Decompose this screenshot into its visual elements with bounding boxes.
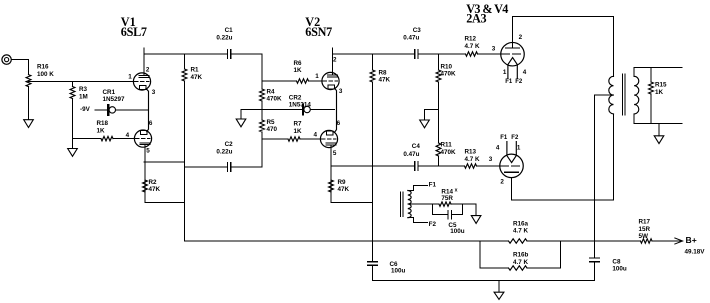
svg-text:R6: R6 [294,60,303,67]
wire V2b plate to C4 [331,165,415,167]
svg-text:49.18V: 49.18V [685,249,706,256]
resistor R14 [439,202,451,206]
svg-text:-9V: -9V [80,106,91,113]
wire rail B top [261,54,263,89]
svg-text:0.47u: 0.47u [403,35,419,42]
svg-text:3: 3 [152,89,156,96]
svg-text:C2: C2 [225,141,234,148]
wire R16 branch left [479,241,481,268]
svg-text:1: 1 [517,145,521,152]
wire R14 to ground stub [451,203,476,205]
wire C6 to bottom rail [372,265,374,280]
wire B+ rail mid [527,240,641,242]
svg-text:F1: F1 [500,135,508,141]
svg-text:6SL7: 6SL7 [121,25,147,39]
svg-text:100u: 100u [450,228,465,235]
wire primary center tap [595,94,614,96]
svg-text:4.7 K: 4.7 K [513,228,529,235]
tube V3 (2A3) [501,42,525,65]
capacitor C2 [227,163,230,171]
svg-text:R9: R9 [338,179,347,186]
wire V2a plate node to C3 [333,53,415,55]
wire node to CR2 [262,109,302,111]
wire R16b left [480,267,509,269]
wire jog down [424,109,426,120]
wire R16b right [527,267,561,269]
svg-text:R15: R15 [655,82,667,89]
wire C5 branch left [432,204,434,215]
wire rail A to B+ rail [184,81,186,241]
svg-text:3: 3 [492,45,496,52]
wire secondary bottom [634,114,682,124]
wire rail B to R6 [262,80,297,82]
wire V1a cathode lead [146,89,149,132]
svg-text:100 K: 100 K [37,71,54,78]
svg-text:5: 5 [333,150,337,157]
wire R7 to V2 lower grid [300,138,320,140]
svg-text:0.47u: 0.47u [403,151,419,158]
wire V2b plate lead [330,145,332,166]
wire center tap to B+ rail [594,95,596,241]
wire V4 plate to transformer [512,114,614,200]
svg-text:6: 6 [149,120,153,127]
wire R3 node to R18 [73,138,102,140]
resistor R2 [143,180,148,192]
wire C5 right [452,214,463,216]
wire rail B mid [261,101,263,120]
wire jack to pot [11,59,28,61]
wire rail D mid [438,82,440,143]
svg-text:4: 4 [496,145,500,152]
svg-text:100u: 100u [612,265,627,272]
svg-text:47K: 47K [338,186,350,193]
svg-text:R16: R16 [37,64,49,71]
wire rail D top [438,54,440,70]
resistor R8 [370,70,375,82]
wire CR1 to V1 cathode [116,109,149,111]
svg-text:75R: 75R [441,195,453,202]
resistor R15 [649,82,654,94]
wire rail D bottom [438,156,440,166]
wire secondary top [634,67,682,76]
wire V3 plate lead [512,17,514,48]
capacitor C8 [590,258,599,262]
resistor R11 [436,143,441,156]
wire pot bottom to ground [28,87,30,120]
svg-text:47K: 47K [149,186,161,193]
svg-text:6SN7: 6SN7 [305,25,332,39]
wire rail B to R7 [262,138,288,140]
capacitor C4 [415,162,418,170]
svg-text:C4: C4 [412,143,421,150]
wire R9 bottom jog [331,202,373,204]
svg-text:R8: R8 [379,69,388,76]
svg-text:1K: 1K [655,89,664,96]
wire to C8 [594,241,596,258]
input jack J1 [2,55,11,64]
wire C8 to bottom rail [594,262,596,281]
triode V2b (6SN7 section 2) [320,130,337,147]
capacitor C6 [368,262,377,266]
svg-text:CR2: CR2 [289,94,302,101]
svg-text:F2: F2 [429,221,437,228]
svg-text:0.22u: 0.22u [216,35,232,42]
wire CR2 to V2 cathode [310,109,334,111]
svg-text:R17: R17 [639,219,651,226]
svg-text:1: 1 [503,69,507,76]
ground [236,119,246,127]
wire B+ rail right [652,240,681,242]
output transformer T2 secondary [634,76,639,114]
potentiometer R16 element [26,75,31,87]
svg-text:F2: F2 [515,79,523,85]
svg-text:100u: 100u [391,267,406,274]
svg-text:2: 2 [500,179,504,186]
resistor R16b [509,266,528,270]
wire C1 to rail [231,53,262,55]
heater transformer T1 core [399,192,401,217]
svg-text:4.7 K: 4.7 K [465,43,481,50]
svg-text:4: 4 [314,132,318,139]
wire F1 lead [408,186,428,191]
tube V4 (2A3) [500,154,524,178]
resistor R13 [465,164,477,168]
wire R12 to V3 grid [478,53,501,55]
svg-text:R4: R4 [267,88,276,95]
svg-text:R12: R12 [465,36,477,43]
wire grid node down [72,82,74,87]
svg-text:R2: R2 [149,179,158,186]
wire hum ground stub [475,204,477,216]
resistor R5 [260,120,265,132]
B+ terminal arrow [675,238,683,244]
wire V1b plate lead down [144,145,146,203]
capacitor C5 [448,211,452,219]
resistor R12 [466,52,478,56]
diode CR2 [302,105,304,115]
wire rail C down [372,82,374,262]
wire center tap to R14 [408,203,439,205]
wire C3 to junction [418,53,438,55]
wire V2a cathode lead [335,88,337,132]
resistor R17 [641,239,653,243]
svg-text:R7: R7 [294,121,303,128]
wire wiper to V1 grid (node G1) [29,81,134,83]
wire V2b plate to R9 [330,166,332,203]
svg-text:470: 470 [267,126,278,133]
svg-text:R16a: R16a [513,220,529,227]
ground [24,120,34,128]
resistor R7 [288,137,300,141]
svg-text:2: 2 [333,56,337,63]
wire rail C top [372,54,374,70]
wire V3 plate to primary top [513,17,614,77]
wire junction to R12 [439,53,466,55]
diode CR1 [107,105,109,115]
resistor R4 [260,89,265,101]
wire C4 to R13 [418,165,464,167]
svg-text:1: 1 [128,73,132,80]
wire C5 branch right [461,204,463,215]
svg-text:R16b: R16b [513,252,529,259]
svg-text:1N5297: 1N5297 [103,96,126,103]
svg-text:C3: C3 [413,27,422,34]
svg-text:5: 5 [146,148,150,155]
svg-text:F1: F1 [505,79,513,85]
svg-text:4.7 K: 4.7 K [465,156,481,163]
resistor R6 [297,79,309,83]
svg-text:R10: R10 [441,63,453,70]
svg-text:0.22u: 0.22u [216,149,232,156]
capacitor C1 [227,50,230,58]
svg-text:2: 2 [146,67,150,74]
heater transformer T1 winding [408,191,411,218]
wire V1a plate node [144,53,185,55]
wire V2a plate lead [332,48,334,75]
svg-text:6: 6 [337,120,341,127]
wire C2 to rail B [231,166,262,168]
svg-text:470K: 470K [441,71,457,78]
svg-text:470K: 470K [441,149,457,156]
svg-text:1N5314: 1N5314 [289,102,312,109]
ground [420,120,430,128]
svg-text:1M: 1M [79,93,88,100]
resistor R10 [436,70,441,82]
wire -9V stub [95,109,107,111]
svg-text:470K: 470K [267,96,283,103]
svg-text:47K: 47K [191,74,203,81]
wire R16 branch right [560,241,562,268]
wire R2 bottom jog [145,202,185,204]
svg-text:CR1: CR1 [103,89,116,96]
wire to C5 [433,214,448,216]
output transformer T2 primary [609,76,614,114]
wire rail B bottom [261,132,263,167]
svg-text:3: 3 [339,88,343,95]
wire V1b node to rail A [144,161,185,163]
svg-text:R3: R3 [79,86,88,93]
svg-text:F2: F2 [511,135,519,141]
triode V1b (6SL7 section 2) [134,130,151,147]
wire to ground [72,139,74,149]
svg-text:R18: R18 [97,120,109,127]
wire jog down [240,110,242,120]
ground [68,149,78,157]
svg-text:B+: B+ [686,235,697,245]
svg-text:4.7 K: 4.7 K [513,259,529,266]
wire F2 lead [408,218,428,223]
svg-text:4: 4 [523,69,527,76]
wire pot top [28,60,30,75]
wire R15 top [650,67,652,82]
svg-text:2: 2 [519,34,523,41]
ground [471,216,481,224]
resistor R3 [70,87,75,99]
wire to C1 [185,53,228,55]
svg-text:C1: C1 [225,27,234,34]
svg-text:R11: R11 [441,142,453,149]
wire bottom rail [373,280,595,282]
wire R13 to V4 grid [477,165,500,167]
svg-text:1: 1 [315,73,319,80]
svg-text:1K: 1K [294,67,303,74]
svg-text:R1: R1 [191,67,200,74]
svg-text:15R: 15R [639,226,651,233]
wire rail A top [184,54,186,69]
wire rail D ground jog [425,108,439,110]
resistor R9 [329,180,334,192]
wire R3 bottom [72,99,74,139]
svg-text:R13: R13 [465,149,477,156]
resistor R1 [182,69,187,81]
wire mid node to ground jog [241,109,262,111]
capacitor C3 [415,50,418,58]
transformer core [621,74,623,115]
svg-text:4: 4 [126,132,130,139]
resistor R18 [101,136,113,140]
wire B+ rail left [185,240,509,242]
svg-text:F1: F1 [429,182,437,189]
ground [654,136,664,144]
svg-text:47K: 47K [379,77,391,84]
svg-text:x: x [455,187,458,193]
wire R15 bottom [650,94,652,124]
svg-text:3: 3 [489,156,493,163]
wire R18 to V1 lower grid [113,138,134,140]
svg-text:5W: 5W [639,233,649,240]
wire bottom rail ground stub [498,281,500,293]
resistor R16a [509,239,528,243]
wire rail A to C2 [185,166,228,168]
triode V1a (6SL7 section 1) [133,73,150,90]
svg-text:2A3: 2A3 [466,11,486,25]
svg-text:R5: R5 [267,119,276,126]
svg-text:1K: 1K [294,128,303,135]
wire secondary ground stub [658,124,660,136]
wire V1a plate lead [143,48,145,76]
ground [494,292,504,299]
triode V2a (6SN7 section 1) [322,72,339,89]
wire R6 to V2 grid [309,80,322,82]
svg-text:1K: 1K [97,127,106,134]
